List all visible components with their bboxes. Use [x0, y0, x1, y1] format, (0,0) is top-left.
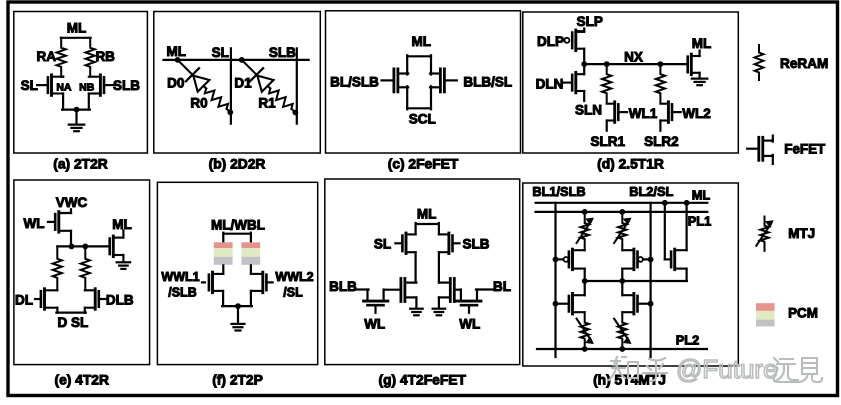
- wire DLN gate lead: [564, 81, 573, 83]
- transistor NA (gate SL): [48, 75, 63, 96]
- panel (c) border: [326, 11, 521, 153]
- svg-text:D SL: D SL: [58, 315, 89, 330]
- wire BL1 vertical: [554, 203, 556, 357]
- transistor WL2: [660, 102, 672, 123]
- wire WL2 gate lead: [672, 111, 681, 113]
- svg-text:WL2: WL2: [682, 106, 711, 121]
- junction dot PL2-MTJ3: [582, 346, 588, 352]
- wire to ground (a): [75, 110, 77, 125]
- svg-text:WL1: WL1: [629, 106, 658, 121]
- resistor left (e): [53, 246, 62, 290]
- wire BL lead (g): [476, 288, 493, 290]
- wire PL2 rail: [537, 348, 707, 350]
- svg-text:SLP: SLP: [577, 14, 603, 29]
- PCM element P1: [214, 242, 233, 265]
- wire ML drain up (e): [122, 231, 124, 238]
- wire WL1 source down to SLR1: [606, 121, 608, 131]
- svg-text:SLR2: SLR2: [644, 134, 679, 149]
- svg-text:BLB/SL: BLB/SL: [463, 75, 512, 90]
- svg-text:FeFET: FeFET: [784, 141, 826, 156]
- left FeFET leads (c): [398, 74, 408, 88]
- svg-text:ML: ML: [167, 44, 187, 59]
- svg-text:BL2/SL: BL2/SL: [629, 184, 673, 199]
- wire DLB source down (e): [84, 308, 86, 313]
- node rail (e): [57, 245, 109, 247]
- wire SLB vertical (b): [296, 48, 298, 123]
- panel (g) border: [325, 179, 520, 365]
- svg-text:SLB: SLB: [269, 45, 296, 60]
- MTJ4: [614, 312, 631, 349]
- wire WWL2 source down (f): [250, 291, 252, 306]
- wire SLB gate lead (g): [453, 242, 460, 244]
- wire WL gate lead (e): [48, 221, 55, 223]
- panel (e) border: [14, 180, 150, 365]
- junction dot BL2 gate lower (h): [648, 301, 654, 307]
- svg-text:SL: SL: [21, 78, 38, 93]
- svg-text:PCM: PCM: [788, 305, 818, 320]
- resistor RB: [86, 38, 95, 77]
- diode D0 with resistor R0 chain: [178, 60, 230, 112]
- wire SLB source leg down (g): [438, 252, 440, 282]
- wire WL gate down right (g): [468, 305, 470, 313]
- transistor WL1: [607, 102, 619, 123]
- FeFET lower-right leads (g): [439, 283, 450, 298]
- MTJ2: [614, 212, 631, 250]
- wire common source rail (a): [62, 108, 90, 110]
- svg-text:BL1/SLB: BL1/SLB: [532, 184, 585, 199]
- svg-text:WL: WL: [24, 216, 45, 231]
- wire WL gate down left (g): [374, 305, 376, 313]
- junction dot (a): [74, 107, 80, 113]
- transistor SL (g): [402, 233, 415, 254]
- wire ML source down to node (h): [685, 269, 687, 281]
- svg-text:WL: WL: [459, 316, 480, 331]
- wire left leg from rail (g): [415, 223, 417, 234]
- junction dot R1-SLB: [293, 110, 299, 116]
- left FeFET gate bars (c): [394, 69, 398, 92]
- wire NB source down: [88, 94, 90, 110]
- wire lower-left drain up (h): [584, 281, 586, 295]
- ground (d): [692, 79, 708, 86]
- svg-text:MTJ: MTJ: [788, 226, 815, 241]
- transistor SLB (g): [439, 233, 453, 254]
- wire top rail (f): [223, 233, 251, 235]
- svg-text:(f) 2T2P: (f) 2T2P: [212, 373, 263, 388]
- junction dot BL1 gate upper (h): [553, 257, 559, 263]
- svg-text:(e) 4T2R: (e) 4T2R: [54, 373, 108, 388]
- left FeFET gate lead (c): [382, 79, 395, 81]
- pmos bubble upper-mid (h): [638, 257, 643, 262]
- wire BL2 vertical: [649, 203, 651, 357]
- junction dot BL1 gate lower (h): [553, 301, 559, 307]
- FeFET lower-left bars (g): [401, 279, 405, 302]
- diode D1 with resistor R1 chain: [242, 60, 295, 112]
- wire ML drain up: [698, 51, 700, 57]
- wire WWL1 source down (f): [222, 291, 224, 306]
- wire gate lead upper-left (h): [556, 258, 564, 260]
- svg-text:BL/SLB: BL/SLB: [330, 75, 379, 90]
- pmos bubble DLP: [564, 38, 569, 43]
- junction dot ML drain (h): [684, 200, 690, 206]
- wire right down to PCM2: [250, 233, 252, 243]
- ground (f): [232, 324, 245, 331]
- wire SL gate lead: [37, 84, 48, 86]
- wire ML top rail (a): [61, 37, 91, 39]
- legend MTJ symbol: [756, 217, 773, 251]
- wire ML drain up (h): [685, 203, 687, 250]
- wire DLB gate lead: [99, 298, 107, 300]
- svg-text:DL: DL: [15, 292, 33, 307]
- wire ML gate lead (h): [665, 258, 670, 260]
- wire gate lead lower-left (h): [556, 303, 569, 305]
- transistor ML (e): [110, 236, 124, 256]
- wire upper-mid source down (h): [621, 269, 623, 281]
- transistor DLB: [85, 289, 99, 310]
- junction dot WL leg (e): [69, 244, 75, 250]
- wire common source rail (f): [222, 305, 252, 307]
- wire to ground (f): [237, 306, 239, 323]
- wire PL1 rail: [536, 211, 708, 213]
- transistor DL: [41, 289, 58, 310]
- svg-text:R0: R0: [190, 95, 207, 110]
- ground (e): [117, 262, 130, 269]
- wire WL source down to node (e): [70, 231, 72, 247]
- wire SL vertical (b): [230, 48, 232, 123]
- wire ML source to ground: [698, 73, 700, 79]
- resistor RA: [57, 38, 66, 77]
- svg-text:SL: SL: [212, 45, 229, 60]
- svg-text:D1: D1: [234, 76, 252, 91]
- transistor WWL1: [209, 272, 223, 293]
- junction dot ML-D0: [175, 57, 181, 63]
- wire SL gate lead (g): [395, 242, 402, 244]
- junction dot node left (h): [582, 278, 588, 284]
- resistor R2 (d): [656, 64, 665, 103]
- wire PCM2 to NB (f): [250, 265, 252, 274]
- legend ReRAM symbol: [755, 45, 764, 80]
- wire SL source leg down (g): [415, 252, 417, 282]
- svg-text:ML/WBL: ML/WBL: [211, 218, 265, 233]
- wire NA drain to RA: [61, 75, 63, 77]
- svg-text:PL1: PL1: [688, 214, 711, 229]
- wire gate lead lower-mid (h): [638, 303, 651, 305]
- svg-text:SLN: SLN: [575, 103, 602, 118]
- junction dot node left: [581, 61, 587, 67]
- ground right (g): [433, 309, 446, 316]
- FeFET lower-right gate lead (g): [455, 289, 461, 291]
- svg-text:ML: ML: [112, 217, 132, 232]
- wire ML source down to ground (e): [122, 255, 124, 262]
- FeFET lower-left gate lead (g): [384, 289, 401, 291]
- ground (a): [69, 125, 85, 132]
- svg-text:(d) 2.5T1R: (d) 2.5T1R: [597, 156, 664, 171]
- junction dot ML-D1: [239, 57, 245, 63]
- svg-text:ML: ML: [67, 20, 87, 35]
- node NX rail: [584, 63, 687, 65]
- wire common source rail (e): [56, 312, 85, 314]
- junction dot node r2: [658, 61, 664, 67]
- FeFET lower-right bars (g): [450, 279, 454, 302]
- wire gate lead upper-mid (h): [643, 258, 651, 260]
- transistor WWL2: [251, 272, 267, 293]
- pass transistor WL left (g): [364, 290, 388, 306]
- svg-text:(c) 2FeFET: (c) 2FeFET: [388, 156, 459, 171]
- svg-text:R1: R1: [258, 95, 276, 110]
- transistor DLP (PMOS): [572, 30, 584, 51]
- svg-text:SLB: SLB: [463, 237, 490, 252]
- junction dot ML gate (h): [662, 200, 668, 206]
- svg-text:ML: ML: [692, 36, 712, 51]
- panel (h) border: [523, 183, 739, 366]
- transistor NB (gate SLB): [89, 75, 104, 96]
- wire FeFET-left source to ground (g): [415, 297, 417, 308]
- wire ML rail (h): [536, 202, 708, 204]
- FeFET body box top wire (c): [407, 55, 431, 74]
- junction dot BL2 gate upper (h): [648, 257, 654, 263]
- svg-text:ML: ML: [692, 188, 711, 203]
- PCM element P2: [241, 242, 260, 265]
- transistor WL (e): [55, 212, 71, 233]
- svg-text:NB: NB: [79, 82, 95, 94]
- panel (d) border: [523, 12, 739, 153]
- junction dot PL2-MTJ4: [619, 346, 625, 352]
- svg-text:SL: SL: [374, 237, 391, 252]
- transistor upper-left PMOS (h): [569, 249, 585, 270]
- wire PMOS source down to node: [583, 49, 585, 64]
- transistor ML read (h): [671, 249, 687, 270]
- pass transistor WL right (g): [457, 290, 481, 306]
- wire right leg from rail (g): [438, 223, 440, 234]
- MTJ3: [577, 312, 594, 349]
- junction dot node mid (h): [619, 278, 625, 284]
- watermark zhihu CJK glyphs and @Future handle: [609, 357, 667, 381]
- transistor upper-mid PMOS (h): [622, 249, 637, 270]
- right FeFET gate lead (c): [444, 79, 457, 81]
- transistor ML (d): [688, 54, 700, 75]
- svg-text:RB: RB: [95, 49, 115, 64]
- wire upper-left source down (h): [584, 269, 586, 281]
- junction dot R0-SL: [227, 109, 233, 115]
- svg-text:PL2: PL2: [676, 333, 699, 348]
- legend FeFET symbol: [747, 136, 773, 164]
- wire SLB gate lead: [104, 84, 115, 86]
- svg-text:ML: ML: [412, 34, 432, 49]
- panel (f) border: [157, 182, 317, 364]
- transistor lower-left NMOS (h): [569, 293, 585, 314]
- svg-text:(b) 2D2R: (b) 2D2R: [209, 156, 266, 171]
- svg-text:(g) 4T2FeFET: (g) 4T2FeFET: [379, 373, 467, 388]
- svg-text:NA: NA: [56, 82, 72, 94]
- wire DL source down (e): [56, 308, 58, 313]
- svg-text:SLB: SLB: [113, 78, 140, 93]
- junction dot node r1: [604, 61, 610, 67]
- resistor R1 (d): [602, 64, 611, 103]
- svg-text:WL: WL: [364, 316, 385, 331]
- wire DL gate lead: [35, 298, 41, 300]
- resistor right (e): [81, 246, 90, 290]
- svg-text:DLP: DLP: [537, 34, 564, 49]
- right FeFET leads (c): [430, 74, 440, 88]
- transistor DLN: [572, 72, 584, 93]
- wire DLP gate lead: [562, 39, 565, 41]
- wire WWL1 gate lead: [202, 281, 205, 283]
- ground left (g): [410, 309, 423, 316]
- svg-text:BL: BL: [493, 279, 511, 294]
- junction dot PL1-MTJ1: [582, 209, 588, 215]
- wire ML gate leg down (h): [664, 203, 666, 260]
- svg-text:DLN: DLN: [536, 76, 564, 91]
- svg-text:/SL: /SL: [283, 286, 303, 300]
- svg-text:ML: ML: [417, 207, 437, 222]
- svg-text:/SLB: /SLB: [168, 286, 196, 300]
- svg-text:(a) 2T2R: (a) 2T2R: [53, 156, 107, 171]
- wire WL2 source down to SLR2: [659, 121, 661, 131]
- svg-text:WWL1: WWL1: [161, 270, 199, 284]
- svg-text:D0: D0: [167, 76, 184, 91]
- junction dot PL1-MTJ2: [619, 209, 625, 215]
- wire PCM1 to NA (f): [222, 265, 224, 274]
- pmos bubble upper-left (h): [564, 257, 569, 262]
- wire VWC to WL transistor drain: [59, 209, 71, 213]
- wire FeFET-right source to ground (g): [438, 297, 440, 308]
- junction dot (f): [235, 303, 241, 309]
- wire BLB lead (g): [356, 288, 369, 290]
- wire left down to PCM1: [222, 233, 224, 243]
- svg-text:SCL: SCL: [409, 111, 436, 126]
- legend PCM symbol: [756, 303, 775, 326]
- wire NA source down: [62, 94, 64, 110]
- svg-text:ReRAM: ReRAM: [780, 56, 828, 71]
- wire DLN source down to SLN: [583, 91, 585, 101]
- FeFET body box bottom wire (c): [407, 86, 431, 109]
- wire top rail (g): [416, 223, 439, 225]
- right FeFET gate bars (c): [440, 69, 444, 92]
- wire SLP to PMOS drain: [576, 29, 584, 32]
- storage node rail (h): [585, 280, 687, 282]
- wire DLN drain up to node: [583, 64, 585, 74]
- FeFET lower-left leads (g): [406, 283, 416, 298]
- junction dot resistor right (e): [82, 244, 88, 250]
- svg-text:SLR1: SLR1: [590, 134, 625, 149]
- svg-text:VWC: VWC: [56, 195, 88, 210]
- wire WWL2 gate lead: [266, 281, 272, 283]
- panel (b) border: [154, 12, 320, 154]
- wire lower-mid drain up (h): [621, 281, 623, 295]
- transistor lower-mid NMOS (h): [622, 293, 637, 314]
- svg-text:NX: NX: [624, 50, 643, 65]
- wire ML horizontal rail (b): [164, 59, 309, 61]
- MTJ1: [577, 212, 594, 250]
- svg-text:RA: RA: [37, 49, 57, 64]
- panel (a) border: [14, 12, 148, 154]
- svg-text:BLB: BLB: [329, 279, 357, 294]
- wire WL1 gate lead: [618, 111, 627, 113]
- svg-text:DLB: DLB: [106, 292, 134, 307]
- svg-text:@Future: @Future: [676, 354, 778, 384]
- svg-text:WWL2: WWL2: [275, 270, 313, 284]
